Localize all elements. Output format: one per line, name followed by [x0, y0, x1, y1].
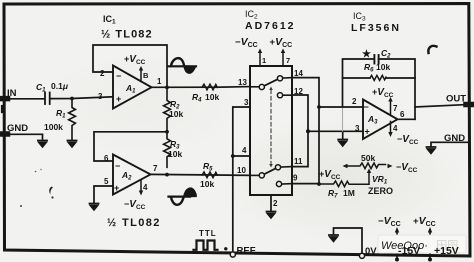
svg-text:2: 2	[273, 199, 278, 208]
op-amp A1	[113, 66, 152, 109]
ground (right GND)	[427, 147, 436, 153]
ground (0V)	[329, 235, 338, 241]
svg-text:100k: 100k	[44, 122, 63, 132]
svg-text:50k: 50k	[361, 153, 375, 163]
wire pin12/pin11 tie	[292, 95, 308, 167]
svg-text:10k: 10k	[200, 179, 214, 189]
svg-text:+: +	[116, 94, 121, 104]
switch S1 lever	[265, 80, 278, 86]
svg-text:1M: 1M	[343, 188, 355, 198]
wire GND to ground	[6, 134, 43, 139]
svg-text:R6: R6	[364, 62, 374, 74]
node IN terminal	[2, 96, 8, 102]
svg-text:7: 7	[153, 164, 158, 173]
wire A3 pin2	[319, 106, 363, 108]
stray speck marks	[49, 187, 53, 195]
ground (R1)	[68, 141, 77, 147]
svg-text:R5: R5	[203, 161, 213, 173]
wire pin1 -Vcc arrow	[259, 52, 261, 66]
svg-text:−: −	[116, 71, 121, 81]
switch S2 throw pin9	[276, 181, 281, 186]
watermark box	[378, 235, 466, 253]
wire A1 feedback loop	[93, 45, 167, 88]
node R2/R3 junction	[165, 130, 169, 134]
svg-text:10k: 10k	[169, 109, 183, 119]
svg-text:13: 13	[238, 78, 247, 87]
wire A2 +input to ground	[94, 186, 113, 203]
wire A3 pin3	[308, 130, 363, 132]
wire C2/R6 feedback loop	[343, 59, 375, 107]
svg-text:A2: A2	[121, 170, 132, 182]
wire control line pin3/pin4 to REF	[233, 107, 250, 252]
svg-text:★: ★	[362, 49, 371, 60]
svg-text:10k: 10k	[168, 149, 182, 159]
node REF terminal circle	[230, 252, 235, 257]
switch S1 throw pin14	[277, 76, 282, 81]
ground (A3 pin3)	[338, 140, 347, 146]
wire VR1 wiper	[368, 172, 370, 184]
resistor R1	[69, 99, 76, 141]
node pin9/R7 junction	[317, 182, 321, 186]
node border bump	[1, 107, 4, 112]
wire R5 to pin10	[216, 174, 250, 176]
capacitor C1	[45, 93, 50, 105]
svg-text:GND: GND	[444, 133, 465, 144]
svg-text:IC2: IC2	[245, 9, 258, 21]
stray arc mark	[428, 46, 436, 53]
svg-text:+VCC: +VCC	[372, 87, 394, 99]
node A2 out junction	[165, 173, 169, 177]
svg-text:GND: GND	[7, 123, 28, 134]
op-amp A3	[363, 100, 398, 140]
waveform icon TTL square wave	[194, 241, 218, 250]
op-amp A1 bias pin B arrow to +Vcc	[140, 69, 142, 82]
ground (pin2)	[267, 212, 276, 218]
wire +15V supply	[429, 231, 431, 259]
capacitor C2	[374, 55, 378, 64]
svg-text:IC1: IC1	[103, 14, 116, 26]
wire pin7 +Vcc arrow	[282, 52, 284, 66]
svg-text:AD7612: AD7612	[245, 20, 296, 32]
svg-text:3: 3	[98, 92, 103, 101]
svg-text:3: 3	[355, 124, 360, 133]
svg-text:2: 2	[352, 97, 357, 106]
switch S2 common pin10	[250, 174, 259, 176]
svg-text:3: 3	[244, 98, 249, 107]
op-amp A3 pin7 +Vcc arrow	[390, 100, 392, 115]
op-amp A3 pin4 -Vcc arrow	[390, 122, 392, 134]
node OUT terminal	[466, 102, 472, 108]
node pin3-wire junction	[306, 129, 310, 133]
switch S1 common pin13	[250, 86, 259, 88]
svg-text:5: 5	[104, 177, 109, 186]
wire A3 ground stub	[342, 131, 344, 139]
svg-text:10: 10	[237, 166, 246, 175]
svg-text:14: 14	[294, 69, 303, 78]
potentiometer VR1	[347, 163, 386, 169]
svg-text:B: B	[143, 71, 149, 80]
svg-text:½ TL082: ½ TL082	[107, 217, 161, 229]
svg-text:OUT: OUT	[446, 94, 466, 105]
wire pin2 to ground	[270, 195, 272, 211]
waveform icon sine inverted (A2 out)	[169, 188, 197, 205]
svg-text:½ TL082: ½ TL082	[101, 29, 153, 41]
wire A1 output	[152, 86, 217, 88]
wire C1 to node	[51, 97, 114, 99]
svg-text:+VCC: +VCC	[270, 36, 293, 49]
svg-text:TTL: TTL	[199, 229, 217, 238]
node pin2-wire junction	[317, 105, 321, 109]
IC2 AD7612 box	[250, 66, 292, 195]
switch S1 throw pin12	[277, 93, 282, 98]
node GND terminal	[2, 131, 8, 137]
svg-text:1: 1	[157, 77, 162, 86]
resistor R3	[164, 132, 171, 167]
node A1 out junction	[165, 86, 169, 90]
wire 0V to ground	[334, 228, 363, 254]
svg-text:6: 6	[400, 110, 405, 119]
wire A2 output	[151, 173, 217, 176]
svg-text:-15V: -15V	[398, 245, 420, 257]
waveform icon sine (A1 out)	[169, 58, 197, 73]
resistor R4	[202, 84, 217, 90]
op-amp A2 pin4 -Vcc arrow	[140, 180, 142, 192]
resistor R6	[370, 75, 386, 80]
resistor R7	[319, 181, 369, 187]
svg-text:10k: 10k	[205, 92, 219, 102]
svg-text:REF: REF	[237, 246, 256, 257]
mechanical link dashed	[270, 90, 272, 164]
switch S2 throw pin11	[275, 165, 280, 170]
svg-text:11: 11	[294, 157, 303, 166]
wire -15V supply	[396, 231, 398, 259]
wire A2 feedback rail	[94, 132, 167, 161]
svg-text:−VCC: −VCC	[124, 199, 146, 211]
wire R6 rail	[343, 77, 371, 79]
svg-text:4: 4	[242, 146, 247, 155]
svg-text:7: 7	[286, 56, 290, 65]
switch S2 lever	[265, 169, 276, 174]
svg-text:IC3: IC3	[353, 11, 366, 23]
svg-text:C2: C2	[381, 48, 391, 60]
svg-text:ZERO: ZERO	[368, 186, 393, 196]
svg-text:1: 1	[262, 56, 266, 65]
svg-text:−: −	[115, 161, 120, 171]
svg-text:0V: 0V	[365, 246, 377, 257]
svg-text:0.1μ: 0.1μ	[51, 81, 69, 91]
wire GND right stub	[431, 142, 468, 146]
node 0V terminal circle	[359, 253, 364, 258]
wire pin4 stub	[233, 155, 250, 157]
wire pin14 to summing node	[292, 78, 319, 184]
svg-text:4: 4	[143, 183, 148, 192]
svg-text:+15V: +15V	[434, 245, 459, 257]
resistor R2	[164, 87, 171, 131]
svg-text:+: +	[365, 127, 370, 137]
svg-text:−VCC: −VCC	[235, 36, 258, 49]
svg-text:7: 7	[393, 104, 398, 113]
svg-text:4: 4	[393, 124, 398, 133]
svg-text:10k: 10k	[376, 62, 390, 72]
svg-text:9: 9	[293, 174, 298, 183]
ground (GND input)	[38, 141, 47, 147]
svg-text:IN: IN	[7, 88, 17, 99]
svg-text:+: +	[114, 183, 119, 193]
wire R4 to pin13	[216, 86, 250, 89]
node junction C1/R1	[70, 97, 74, 101]
svg-text:6: 6	[104, 154, 109, 163]
wire pin9	[292, 183, 319, 185]
op-amp A2	[113, 155, 151, 195]
node pin4 junction	[231, 154, 235, 158]
resistor R5	[202, 172, 217, 178]
wire IN to C1	[6, 98, 44, 100]
svg-text:2: 2	[100, 69, 105, 78]
svg-text:12: 12	[294, 87, 303, 96]
svg-text:LF356N: LF356N	[351, 22, 401, 34]
wire A3 output to OUT	[398, 105, 470, 120]
svg-text:−: −	[364, 102, 369, 112]
ground (A2 pin5)	[90, 204, 99, 210]
